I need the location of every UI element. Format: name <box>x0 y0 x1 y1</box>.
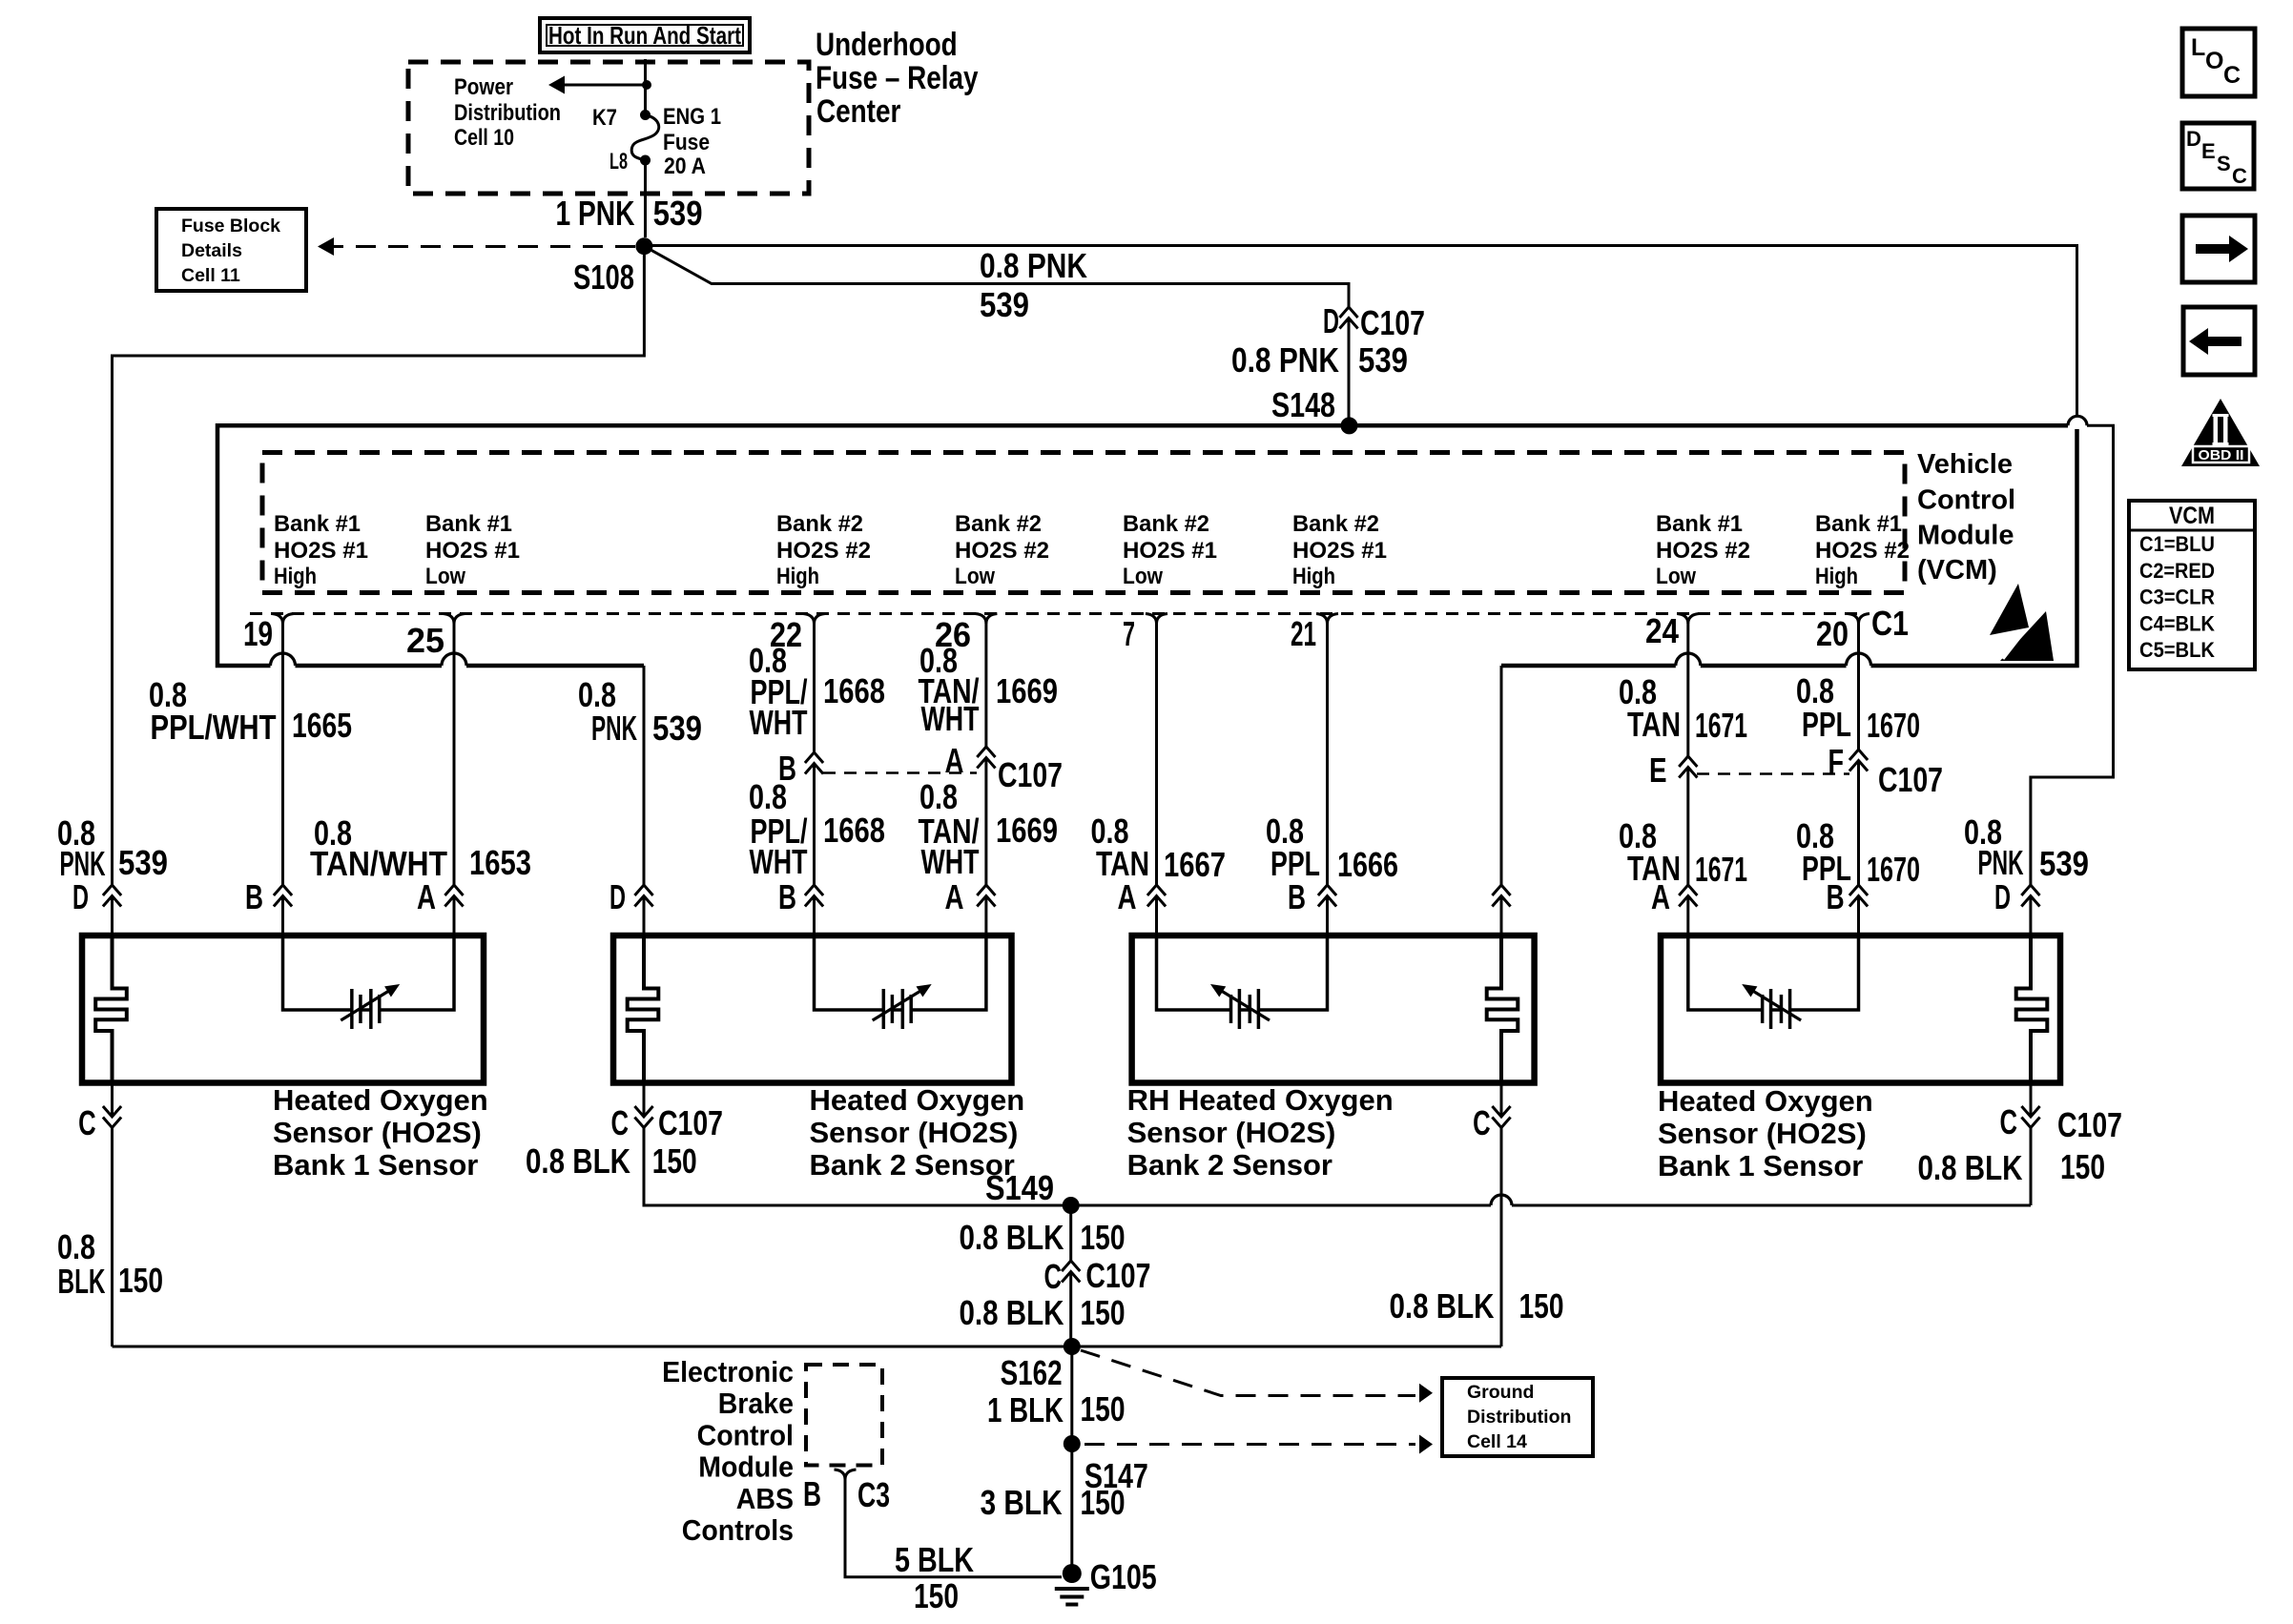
svg-text:Sensor (HO2S): Sensor (HO2S) <box>273 1116 482 1149</box>
svg-text:B: B <box>1827 877 1845 916</box>
svg-text:Fuse – Relay: Fuse – Relay <box>816 60 979 96</box>
svg-text:F: F <box>1828 742 1845 781</box>
svg-text:Bank #1: Bank #1 <box>1656 511 1743 537</box>
svg-text:C107: C107 <box>2057 1105 2122 1144</box>
svg-text:Center: Center <box>816 93 900 130</box>
svg-text:24: 24 <box>1645 611 1679 650</box>
svg-text:A: A <box>945 877 964 916</box>
svg-text:Vehicle: Vehicle <box>1917 449 2013 480</box>
svg-text:Cell 10: Cell 10 <box>454 125 514 151</box>
svg-text:Low: Low <box>1123 564 1163 589</box>
svg-text:1671: 1671 <box>1695 850 1747 889</box>
svg-text:1669: 1669 <box>996 671 1058 710</box>
svg-text:Low: Low <box>425 564 465 589</box>
svg-text:S162: S162 <box>1001 1353 1063 1392</box>
svg-text:G105: G105 <box>1090 1557 1157 1596</box>
svg-text:C107: C107 <box>1085 1256 1150 1295</box>
svg-text:OBD II: OBD II <box>2199 447 2244 463</box>
svg-text:0.8 BLK: 0.8 BLK <box>960 1218 1064 1257</box>
svg-text:HO2S #2: HO2S #2 <box>1656 538 1750 564</box>
svg-text:C3: C3 <box>857 1475 890 1514</box>
svg-text:C107: C107 <box>658 1103 723 1142</box>
svg-text:20 A: 20 A <box>664 154 706 179</box>
svg-text:Low: Low <box>955 564 995 589</box>
svg-text:HO2S #1: HO2S #1 <box>274 538 368 564</box>
svg-text:D: D <box>1994 877 2011 916</box>
svg-text:Heated Oxygen: Heated Oxygen <box>273 1083 488 1117</box>
svg-text:High: High <box>776 564 819 589</box>
svg-text:539: 539 <box>118 843 168 882</box>
svg-text:7: 7 <box>1123 614 1135 653</box>
svg-text:539: 539 <box>653 194 703 233</box>
svg-text:150: 150 <box>1081 1483 1126 1522</box>
svg-text:B: B <box>778 877 796 916</box>
svg-text:C: C <box>1044 1257 1063 1296</box>
svg-text:Cell 11: Cell 11 <box>181 265 240 286</box>
svg-text:C: C <box>611 1103 630 1142</box>
svg-text:Bank #1: Bank #1 <box>274 511 361 537</box>
svg-text:ENG 1: ENG 1 <box>663 104 721 130</box>
svg-text:WHT: WHT <box>921 699 980 738</box>
svg-text:1665: 1665 <box>292 706 352 745</box>
svg-text:1668: 1668 <box>823 671 885 710</box>
svg-text:1653: 1653 <box>469 843 531 882</box>
svg-text:1671: 1671 <box>1695 706 1747 745</box>
svg-text:Bank #2: Bank #2 <box>1292 511 1379 537</box>
svg-text:D: D <box>72 877 89 916</box>
svg-text:0.8: 0.8 <box>749 777 787 816</box>
svg-text:Bank 1 Sensor: Bank 1 Sensor <box>1658 1149 1863 1182</box>
svg-text:Brake: Brake <box>718 1387 794 1420</box>
svg-text:B: B <box>1288 877 1306 916</box>
svg-text:S148: S148 <box>1271 385 1335 424</box>
svg-text:0.8: 0.8 <box>919 777 958 816</box>
svg-text:HO2S #1: HO2S #1 <box>1292 538 1387 564</box>
svg-text:1 PNK: 1 PNK <box>556 194 635 233</box>
svg-text:0.8 BLK: 0.8 BLK <box>1918 1148 2023 1187</box>
svg-text:C: C <box>1473 1103 1491 1142</box>
svg-text:0.8: 0.8 <box>57 1227 95 1266</box>
svg-text:E: E <box>1649 750 1667 790</box>
svg-text:C1=BLU: C1=BLU <box>2139 532 2215 556</box>
svg-text:(VCM): (VCM) <box>1917 555 1997 586</box>
svg-text:Bank #1: Bank #1 <box>425 511 512 537</box>
svg-text:C4=BLK: C4=BLK <box>2139 611 2215 635</box>
svg-text:Sensor (HO2S): Sensor (HO2S) <box>1658 1117 1867 1150</box>
svg-text:Hot In Run And Start: Hot In Run And Start <box>548 21 741 50</box>
svg-text:Control: Control <box>697 1418 794 1451</box>
svg-text:HO2S #2: HO2S #2 <box>776 538 871 564</box>
svg-text:150: 150 <box>118 1261 163 1300</box>
svg-text:150: 150 <box>1081 1293 1126 1332</box>
svg-text:C: C <box>2223 62 2241 89</box>
svg-text:HO2S #2: HO2S #2 <box>1815 538 1910 564</box>
svg-text:150: 150 <box>914 1576 959 1615</box>
svg-text:Module: Module <box>698 1450 794 1484</box>
svg-text:B: B <box>245 877 263 916</box>
svg-text:A: A <box>1651 877 1670 916</box>
svg-text:C3=CLR: C3=CLR <box>2139 586 2215 609</box>
svg-text:C: C <box>78 1103 96 1142</box>
svg-text:150: 150 <box>652 1141 697 1181</box>
svg-text:RH Heated Oxygen: RH Heated Oxygen <box>1127 1083 1394 1117</box>
svg-text:Cell 14: Cell 14 <box>1467 1431 1527 1452</box>
svg-text:Ground: Ground <box>1467 1382 1534 1403</box>
svg-text:D: D <box>2186 127 2201 151</box>
svg-text:539: 539 <box>652 709 702 748</box>
svg-text:L: L <box>2191 34 2205 61</box>
svg-text:PPL: PPL <box>1802 705 1851 744</box>
svg-text:S149: S149 <box>985 1168 1054 1207</box>
svg-text:1668: 1668 <box>823 811 885 850</box>
svg-text:Module: Module <box>1917 521 2014 551</box>
svg-text:Distribution: Distribution <box>1467 1407 1571 1428</box>
svg-text:High: High <box>1292 564 1335 589</box>
svg-text:B: B <box>803 1474 821 1513</box>
svg-text:Sensor (HO2S): Sensor (HO2S) <box>1127 1116 1336 1149</box>
svg-text:539: 539 <box>980 285 1029 324</box>
svg-text:C107: C107 <box>998 755 1063 794</box>
svg-text:3 BLK: 3 BLK <box>981 1483 1063 1522</box>
svg-text:WHT: WHT <box>750 703 808 742</box>
svg-text:D: D <box>609 877 626 916</box>
svg-text:1 BLK: 1 BLK <box>987 1390 1064 1429</box>
svg-text:Bank #2: Bank #2 <box>776 511 863 537</box>
svg-text:150: 150 <box>2060 1147 2105 1186</box>
svg-text:A: A <box>1118 877 1137 916</box>
svg-text:Bank #2: Bank #2 <box>1123 511 1209 537</box>
svg-text:Distribution: Distribution <box>454 100 561 126</box>
svg-text:Sensor (HO2S): Sensor (HO2S) <box>810 1116 1019 1149</box>
svg-text:E: E <box>2201 139 2216 163</box>
svg-text:WHT: WHT <box>921 842 980 881</box>
svg-text:PNK: PNK <box>1978 843 2024 882</box>
svg-text:150: 150 <box>1519 1286 1564 1326</box>
svg-text:HO2S #1: HO2S #1 <box>425 538 520 564</box>
svg-text:C: C <box>2232 164 2247 188</box>
svg-text:0.8 PNK: 0.8 PNK <box>1231 340 1339 380</box>
svg-text:C5=BLK: C5=BLK <box>2139 638 2215 662</box>
svg-text:L8: L8 <box>609 149 628 175</box>
svg-text:D: D <box>1323 301 1339 340</box>
svg-text:BLK: BLK <box>58 1262 106 1301</box>
svg-text:HO2S #1: HO2S #1 <box>1123 538 1217 564</box>
svg-text:WHT: WHT <box>750 842 808 881</box>
svg-text:Low: Low <box>1656 564 1696 589</box>
svg-text:C107: C107 <box>1878 760 1943 799</box>
svg-text:0.8 BLK: 0.8 BLK <box>960 1293 1064 1332</box>
svg-text:High: High <box>1815 564 1858 589</box>
svg-text:1666: 1666 <box>1337 845 1398 884</box>
svg-text:Power: Power <box>454 74 513 100</box>
svg-text:PNK: PNK <box>591 709 637 748</box>
svg-text:1669: 1669 <box>996 811 1058 850</box>
svg-text:A: A <box>417 877 436 916</box>
svg-text:0.8 BLK: 0.8 BLK <box>526 1141 630 1181</box>
svg-text:A: A <box>945 741 964 780</box>
svg-text:0.8 BLK: 0.8 BLK <box>1390 1286 1495 1326</box>
svg-text:Bank 2 Sensor: Bank 2 Sensor <box>1127 1148 1332 1182</box>
svg-text:Bank 2 Sensor: Bank 2 Sensor <box>810 1148 1015 1182</box>
svg-text:TAN: TAN <box>1627 705 1681 744</box>
svg-text:Bank #1: Bank #1 <box>1815 511 1902 537</box>
svg-text:HO2S #2: HO2S #2 <box>955 538 1049 564</box>
svg-text:S108: S108 <box>573 257 634 297</box>
svg-text:5 BLK: 5 BLK <box>895 1540 974 1579</box>
svg-text:1670: 1670 <box>1867 850 1920 889</box>
svg-text:0.8 PNK: 0.8 PNK <box>980 246 1087 285</box>
svg-text:19: 19 <box>243 614 273 653</box>
svg-text:PPL/WHT: PPL/WHT <box>151 708 277 747</box>
svg-text:Bank #2: Bank #2 <box>955 511 1042 537</box>
svg-text:O: O <box>2205 48 2223 74</box>
svg-text:150: 150 <box>1081 1218 1126 1257</box>
svg-text:High: High <box>274 564 317 589</box>
svg-text:Fuse Block: Fuse Block <box>181 216 280 236</box>
svg-text:1670: 1670 <box>1867 706 1920 745</box>
svg-text:Bank 1 Sensor: Bank 1 Sensor <box>273 1148 478 1182</box>
svg-text:ABS: ABS <box>736 1482 794 1515</box>
svg-text:Heated Oxygen: Heated Oxygen <box>1658 1084 1873 1118</box>
svg-text:Details: Details <box>181 240 242 261</box>
svg-text:Fuse: Fuse <box>663 130 710 155</box>
svg-text:Underhood: Underhood <box>816 27 958 63</box>
svg-text:Heated Oxygen: Heated Oxygen <box>810 1083 1025 1117</box>
svg-text:Controls: Controls <box>682 1513 794 1547</box>
svg-text:VCM: VCM <box>2169 503 2215 529</box>
svg-text:539: 539 <box>2039 844 2089 883</box>
svg-text:150: 150 <box>1081 1389 1126 1429</box>
svg-text:C2=RED: C2=RED <box>2139 559 2215 583</box>
svg-text:25: 25 <box>406 621 444 660</box>
svg-text:Control: Control <box>1917 485 2015 516</box>
svg-text:S: S <box>2217 152 2231 175</box>
svg-text:539: 539 <box>1358 340 1408 380</box>
svg-text:C: C <box>2000 1102 2018 1141</box>
svg-text:Electronic: Electronic <box>662 1355 794 1388</box>
svg-text:C1: C1 <box>1871 604 1909 643</box>
svg-text:20: 20 <box>1816 614 1849 653</box>
svg-text:21: 21 <box>1291 614 1316 653</box>
svg-text:1667: 1667 <box>1164 845 1226 884</box>
svg-text:K7: K7 <box>592 105 617 131</box>
svg-text:C107: C107 <box>1360 303 1425 342</box>
